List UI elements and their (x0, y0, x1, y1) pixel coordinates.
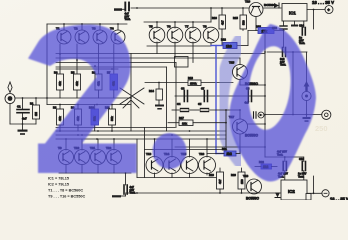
capacitor C9 (277, 150, 288, 181)
svg-text:+: + (327, 7, 330, 12)
svg-text:43k: 43k (58, 116, 62, 121)
resistor R9 (71, 105, 82, 132)
numeral 2 (28, 25, 137, 174)
svg-text:18 . . . 35 V: 18 . . . 35 V (312, 0, 334, 5)
transistor T5 (149, 22, 165, 43)
resistor R4 (54, 71, 64, 91)
capacitor C14 (299, 21, 305, 45)
transistor T3 (92, 24, 107, 44)
wire rail group B (144, 21, 211, 23)
svg-text:56k: 56k (110, 116, 114, 121)
svg-text:R13: R13 (188, 76, 193, 80)
wire box row (145, 149, 223, 151)
transistor T18 (243, 174, 262, 201)
svg-text:T9 . . . T16 = BC550C: T9 . . . T16 = BC550C (48, 195, 86, 199)
resistor R6 (92, 71, 102, 91)
transistor T1 (56, 24, 71, 44)
capacitor C4 (172, 102, 189, 112)
wire rail group A (47, 23, 127, 25)
resistor R1 (30, 98, 40, 124)
transistor T6 (167, 22, 183, 43)
svg-text:T5: T5 (149, 25, 153, 29)
wire rail bottom A (59, 172, 131, 174)
resistor R18 (256, 25, 274, 34)
parts list text (48, 177, 86, 199)
wire crossover X (120, 88, 144, 104)
svg-text:R21: R21 (222, 147, 227, 151)
terminal +supply (325, 6, 333, 14)
arrow input (8, 82, 12, 93)
svg-text:Tant.: Tant. (280, 63, 286, 67)
svg-text:560: 560 (242, 20, 246, 25)
capacitor C3 (125, 3, 129, 11)
wire mid lower rail (175, 146, 265, 148)
svg-text:12k: 12k (182, 122, 187, 126)
transistor T12 (106, 139, 122, 173)
resistor R5 (71, 71, 81, 91)
svg-text:4k7: 4k7 (218, 179, 222, 184)
svg-text:C5: C5 (198, 102, 202, 106)
svg-text:T7: T7 (185, 25, 189, 29)
svg-text:R15: R15 (233, 16, 238, 20)
wire mid rail (175, 95, 265, 97)
resistor R14 (149, 83, 163, 105)
svg-text:Tant.: Tant. (298, 174, 304, 178)
svg-text:IC2: IC2 (288, 189, 295, 194)
capacitor C10 (298, 157, 307, 180)
wire bus lines upper (56, 53, 265, 55)
svg-text:R12: R12 (221, 38, 226, 42)
decimal point (153, 133, 187, 169)
svg-text:R16: R16 (212, 16, 217, 20)
resistor R22 (255, 160, 277, 169)
svg-text:R20: R20 (231, 173, 236, 177)
numeral 0 (229, 24, 316, 182)
watermark 2.0 (28, 24, 316, 182)
terminal output right (322, 110, 331, 119)
wire headphone riser (306, 52, 308, 91)
transistor T17 mid (229, 110, 265, 153)
resistor R8 (53, 105, 64, 132)
transistor T13 (146, 139, 163, 178)
arrow output (304, 81, 310, 91)
wire R18 line (248, 30, 284, 32)
svg-text:T13: T13 (146, 152, 152, 156)
wire R13 line (145, 82, 233, 84)
wire IC1 out (307, 9, 325, 11)
svg-text:43k: 43k (75, 81, 79, 86)
resistor R20 (231, 168, 245, 193)
svg-text:IC2 = 79L15: IC2 = 79L15 (48, 183, 69, 187)
svg-text:T6: T6 (167, 25, 171, 29)
svg-text:Tant.: Tant. (299, 41, 305, 45)
resistor R12 (221, 38, 237, 49)
resistor R17 (168, 116, 226, 126)
capacitor C5 (189, 102, 241, 112)
wire input down (9, 104, 11, 125)
capacitor C2 (117, 185, 136, 196)
terminal output top (302, 91, 311, 100)
svg-text:T16: T16 (199, 152, 205, 156)
svg-text:18 . . 35 V: 18 . . 35 V (330, 197, 348, 200)
resistor R11 (105, 105, 116, 132)
svg-text:150k: 150k (190, 82, 197, 86)
capacitor C15 (280, 48, 286, 67)
svg-text:1k8: 1k8 (226, 44, 232, 48)
wire bus lines lower (56, 127, 175, 129)
wire blue signal path (211, 46, 224, 154)
svg-text:T8: T8 (203, 25, 207, 29)
connector symbol (254, 112, 266, 118)
transistor T8 (203, 25, 219, 46)
resistor R10 (89, 105, 99, 132)
capacitor C1 (17, 98, 29, 124)
ground (114, 8, 122, 11)
wire top supply rail (131, 7, 281, 9)
resistor R16 (212, 8, 226, 46)
wire R12 line (237, 45, 248, 47)
svg-text:T1 . . . T8 = BC560C: T1 . . . T8 = BC560C (48, 189, 83, 193)
svg-text:2k2: 2k2 (227, 152, 233, 156)
wire output node riser (264, 33, 266, 157)
transistor T2 (74, 24, 89, 44)
wire mid riser (130, 54, 132, 132)
wire bottom rail (126, 192, 282, 194)
capacitor C12 (272, 21, 287, 48)
svg-text:T15: T15 (229, 61, 235, 65)
svg-text:Tant.: Tant. (125, 17, 131, 21)
ground C2 (112, 195, 121, 197)
svg-text:4k7: 4k7 (221, 20, 225, 25)
capacitor C7 (201, 87, 208, 102)
wire mid top rail (267, 51, 307, 53)
wire riser (225, 110, 227, 147)
diode D1 (274, 3, 279, 8)
resistor R19 (209, 168, 224, 193)
svg-text:43k: 43k (58, 81, 62, 86)
capacitor C8 (246, 87, 252, 102)
transistor T7 (185, 22, 201, 43)
svg-text:150: 150 (240, 179, 244, 184)
svg-text:C1: C1 (17, 105, 21, 109)
ground R14 (155, 105, 164, 110)
transistor T15 mid (229, 58, 265, 86)
transistor T4 (110, 24, 125, 44)
ground output (303, 117, 311, 122)
resistor R13 (188, 76, 201, 86)
wire output line (265, 114, 322, 116)
transistor T11 (90, 139, 106, 173)
IC2 (281, 180, 307, 200)
svg-text:T19: T19 (245, 0, 251, 4)
svg-text:4u7: 4u7 (22, 117, 27, 121)
svg-text:R19: R19 (209, 173, 214, 177)
diode D2 (275, 193, 280, 198)
transistor T9 (58, 139, 74, 173)
svg-text:R17: R17 (179, 116, 184, 120)
resistor R21 (207, 147, 240, 156)
wire input bus (15, 97, 131, 99)
input terminal (5, 94, 15, 104)
terminal -supply (322, 190, 329, 197)
wire C9 C10 rail (265, 156, 304, 158)
wire resistor bottoms (59, 90, 61, 98)
svg-text:T18: T18 (243, 174, 249, 178)
wire IC2 out (307, 192, 322, 194)
svg-text:C4: C4 (177, 102, 181, 106)
wire transistor drops (59, 44, 61, 74)
small box (175, 57, 189, 68)
transistor T15b (181, 139, 198, 178)
svg-text:1M: 1M (34, 111, 38, 116)
transistor T14 (164, 139, 181, 178)
svg-text:BC550C: BC550C (246, 197, 260, 201)
transistor T10 (74, 139, 90, 173)
wire riser to top rail (210, 8, 212, 22)
svg-text:250: 250 (315, 124, 328, 133)
capacitor C6 (181, 87, 188, 102)
wire vertical input riser (46, 24, 48, 105)
svg-text:R14: R14 (149, 89, 154, 93)
svg-text:IC1 = 78L15: IC1 = 78L15 (48, 177, 69, 181)
resistor R7 (107, 71, 118, 91)
resistor R15 (233, 8, 247, 31)
ground input (18, 124, 28, 135)
IC1 (282, 4, 307, 27)
transistor T16 (199, 139, 216, 175)
svg-text:IC1: IC1 (289, 11, 296, 16)
transistor T19 (245, 0, 276, 31)
